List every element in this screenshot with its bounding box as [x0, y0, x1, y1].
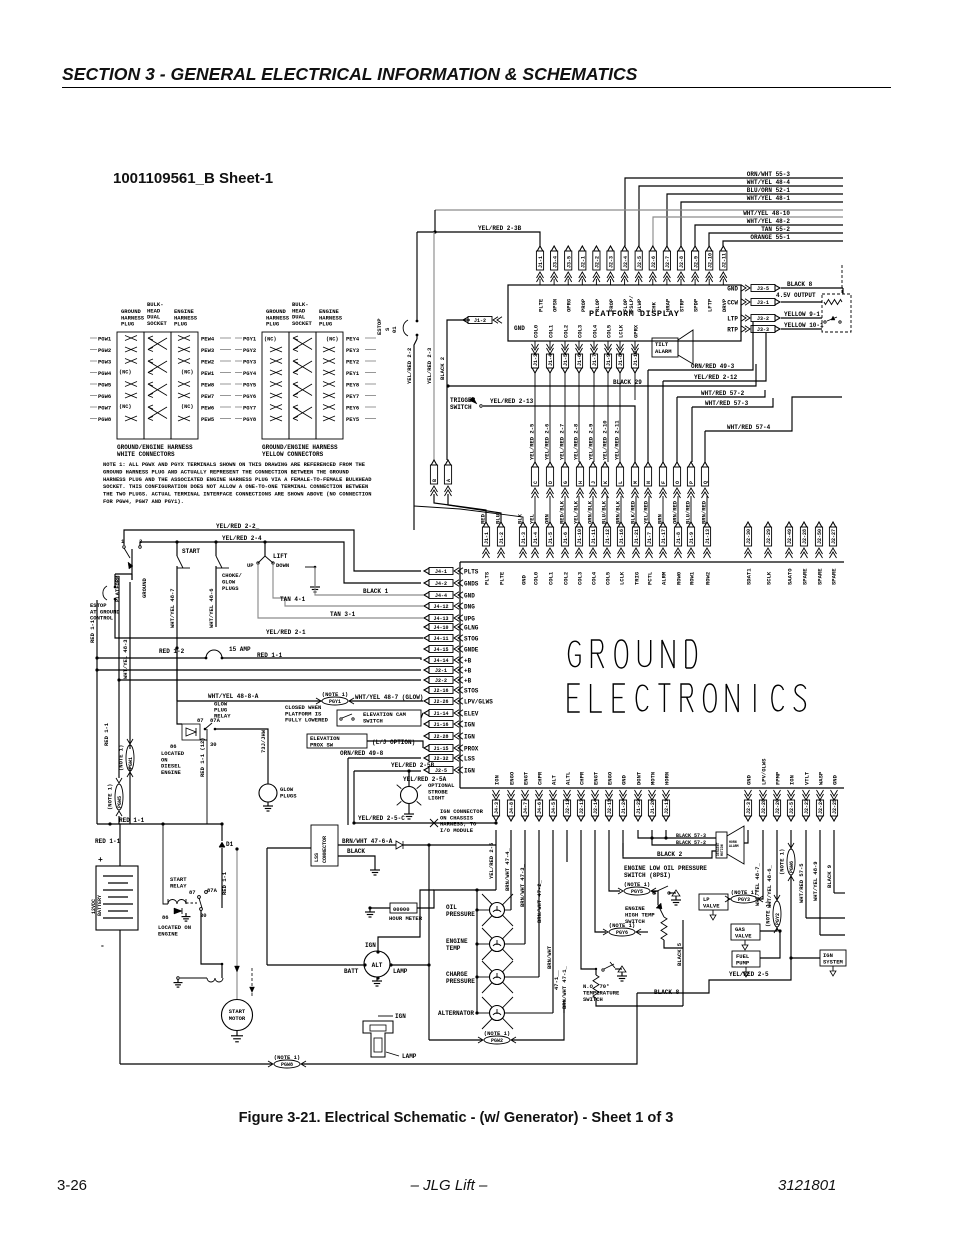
- wire RED 1-1 to +B: [222, 658, 421, 660]
- svg-text:J2-3: J2-3: [746, 802, 752, 814]
- svg-text:PGY2: PGY2: [775, 913, 781, 925]
- lss connector: [311, 825, 338, 866]
- svg-text:IGN: IGN: [365, 942, 376, 949]
- wire YEL/RED 2-12: [663, 333, 766, 381]
- wire gas valve: [776, 830, 778, 901]
- wire J1-3 GND feed: [414, 506, 523, 522]
- svg-text:YELLOW CONNECTORS: YELLOW CONNECTORS: [262, 451, 324, 458]
- svg-text:LSS: LSS: [464, 756, 475, 763]
- svg-text:GND: GND: [521, 574, 528, 585]
- wire bottom rail: [120, 1063, 272, 1065]
- ground module bottom bus: [460, 787, 844, 789]
- svg-text:TAN 55-2: TAN 55-2: [761, 226, 790, 233]
- svg-text:BRN/RED: BRN/RED: [701, 500, 708, 524]
- svg-text:WHT/YEL 48-2: WHT/YEL 48-2: [747, 218, 791, 225]
- connector L: [617, 462, 623, 467]
- svg-text:J1-16: J1-16: [433, 722, 448, 728]
- svg-text:(NC): (NC): [264, 337, 276, 343]
- svg-text:START: START: [229, 1008, 246, 1015]
- svg-text:WHT/YEL 48-1: WHT/YEL 48-1: [747, 195, 791, 202]
- svg-text:CONNECTOR: CONNECTOR: [322, 836, 328, 863]
- svg-text:PEW3: PEW3: [201, 347, 215, 354]
- svg-text:BLU/RED: BLU/RED: [685, 500, 692, 524]
- svg-text:PGW6: PGW6: [98, 393, 111, 400]
- svg-text:WHT/YEL 48-10: WHT/YEL 48-10: [743, 210, 790, 217]
- svg-text:J4-13: J4-13: [433, 616, 448, 622]
- svg-text:J1-7: J1-7: [592, 354, 598, 366]
- connector J2-11 (DRVP): [721, 246, 727, 251]
- svg-text:YEL/RED 2-13: YEL/RED 2-13: [490, 398, 534, 405]
- svg-text:ALARM: ALARM: [655, 348, 672, 355]
- svg-text:COL3: COL3: [577, 571, 584, 585]
- connector K: [602, 462, 608, 467]
- svg-text:PGW3: PGW3: [98, 359, 112, 366]
- svg-text:CHARGE: CHARGE: [446, 971, 468, 978]
- svg-text:ORN/RED 49-8: ORN/RED 49-8: [340, 750, 384, 757]
- wire ign rail: [790, 830, 792, 849]
- svg-text:PGW8: PGW8: [281, 1062, 293, 1068]
- descent/motion/horn alarm: [716, 832, 727, 858]
- battery 12VDC: [96, 866, 138, 930]
- svg-text:SYSTEM: SYSTEM: [823, 958, 844, 965]
- wire lp valve: [728, 898, 731, 900]
- svg-text:CCW: CCW: [727, 300, 738, 307]
- svg-text:4.5V OUTPUT: 4.5V OUTPUT: [776, 292, 816, 299]
- svg-text:ENGINE: ENGINE: [161, 769, 182, 776]
- gauge left rail: [476, 890, 478, 1013]
- svg-text:30: 30: [210, 741, 217, 748]
- svg-text:GND: GND: [746, 774, 753, 785]
- wire BLU/ORN 52-1: [667, 194, 843, 246]
- wire RED 1-1 left rail: [96, 600, 98, 824]
- svg-text:+B: +B: [464, 658, 472, 665]
- svg-text:YELLOW 10-1: YELLOW 10-1: [784, 322, 824, 329]
- hour meter: [390, 903, 417, 913]
- wire ORN/RED: [677, 496, 679, 522]
- svg-text:+B: +B: [464, 668, 472, 675]
- svg-text:SPARE: SPARE: [817, 568, 824, 585]
- svg-text:PLUG: PLUG: [266, 321, 280, 328]
- connector J1-5 (COL1): [547, 522, 553, 527]
- svg-text:J2-11: J2-11: [664, 799, 670, 814]
- wire ORN/WHT 55-3: [625, 178, 843, 246]
- svg-text:J3-2: J3-2: [757, 316, 769, 322]
- wire tilt box: [842, 288, 844, 294]
- svg-text:YEL/RED 2-3: YEL/RED 2-3: [426, 347, 433, 384]
- wire YEL/RED 2-8: [578, 372, 580, 462]
- connector J1-16 (LCLK): [618, 522, 624, 527]
- wire BRN: [662, 496, 664, 522]
- svg-text:73J/JHW: 73J/JHW: [260, 729, 267, 753]
- svg-text:J1-15: J1-15: [433, 746, 448, 752]
- svg-text:J1-26: J1-26: [650, 799, 656, 814]
- svg-text:ENGT: ENGT: [523, 771, 530, 785]
- header: [62, 64, 892, 85]
- svg-text:PROX: PROX: [464, 746, 479, 753]
- svg-text:YEL/RED 2-6: YEL/RED 2-6: [544, 424, 551, 460]
- svg-text:J2-5: J2-5: [435, 768, 447, 774]
- svg-text:J2-14: J2-14: [593, 799, 599, 814]
- svg-text:THE TWO PLUGS. ACTUAL TERMINAL: THE TWO PLUGS. ACTUAL TERMINAL INTERFACE…: [103, 492, 372, 498]
- svg-text:WHT/YEL 48-9: WHT/YEL 48-9: [812, 861, 819, 901]
- svg-text:SWITCH (8PSI): SWITCH (8PSI): [624, 872, 671, 879]
- connector J2-1 (+B): [429, 667, 453, 674]
- svg-text:PLTE: PLTE: [499, 571, 506, 585]
- wire B to J1-1: [434, 494, 486, 522]
- svg-text:PGY6: PGY6: [616, 930, 628, 936]
- svg-text:J4-2: J4-2: [435, 581, 447, 587]
- connector J1-8 (ROW0): [675, 522, 681, 527]
- ground module top bus: [460, 561, 844, 563]
- wire alt lamp: [391, 964, 429, 966]
- svg-text:J2-9: J2-9: [693, 256, 699, 268]
- svg-text:WHT/YEL 48-6: WHT/YEL 48-6: [208, 588, 215, 628]
- svg-text:PGY5: PGY5: [243, 382, 257, 389]
- connector D: [547, 462, 553, 467]
- svg-text:J2-1: J2-1: [435, 668, 447, 674]
- svg-text:ALT: ALT: [551, 774, 558, 785]
- svg-text:GROUND/ENGINE HARNESS: GROUND/ENGINE HARNESS: [117, 444, 193, 451]
- svg-text:PLTS: PLTS: [464, 569, 479, 576]
- svg-text:VTLT: VTLT: [804, 771, 811, 785]
- white connector table: [117, 332, 144, 439]
- wire YEL/RED 2-2: [124, 530, 421, 571]
- wire YEL/RED 2-10: [607, 372, 609, 462]
- wire +B J2-2: [119, 679, 421, 681]
- svg-text:SCLK: SCLK: [766, 571, 773, 585]
- svg-text:L: L: [618, 481, 624, 484]
- wire battery minus: [119, 930, 121, 1064]
- svg-text:J2-10: J2-10: [707, 253, 713, 268]
- svg-text:COL2: COL2: [563, 572, 570, 585]
- svg-text:SDAT1: SDAT1: [746, 568, 753, 585]
- connector J1-10 (COL3): [576, 522, 582, 527]
- svg-text:ROW1: ROW1: [689, 571, 696, 585]
- svg-text:PGW8: PGW8: [98, 416, 112, 423]
- svg-text:IGN: IGN: [464, 722, 475, 729]
- svg-text:YEL/RED 2-1: YEL/RED 2-1: [266, 629, 306, 636]
- gauge OIL PRESSURE: [482, 894, 513, 926]
- svg-text:HOUR METER: HOUR METER: [389, 915, 423, 922]
- wire relay to solenoid: [201, 910, 222, 978]
- svg-text:N: N: [646, 481, 652, 484]
- svg-text:LSS: LSS: [314, 853, 320, 862]
- wire YEL/RED 2-4: [140, 542, 421, 583]
- svg-text:J2-30: J2-30: [746, 529, 752, 544]
- svg-text:PGY7: PGY7: [243, 405, 256, 412]
- connector J4-1 (PLTS): [429, 568, 453, 575]
- svg-text:FSLP/: FSLP/: [628, 295, 635, 312]
- wire relay feeds: [177, 648, 182, 724]
- svg-text:J1-3: J1-3: [521, 532, 527, 544]
- svg-text:LFTP: LFTP: [707, 298, 714, 312]
- connector J1-2 (PLTE): [498, 522, 504, 527]
- wire BLU/BLK: [606, 496, 608, 522]
- svg-text:YEL/RED 2-2_: YEL/RED 2-2_: [216, 523, 260, 530]
- svg-text:PGW2: PGW2: [491, 1038, 503, 1044]
- svg-text:J2-28: J2-28: [761, 799, 767, 814]
- svg-text:STOS: STOS: [464, 688, 479, 695]
- low oil pressure switch symbol: [655, 886, 668, 892]
- ground symbol black 1: [314, 567, 316, 583]
- svg-text:COL4: COL4: [592, 324, 599, 338]
- svg-text:ORN/BLK: ORN/BLK: [587, 500, 594, 524]
- connector J2-30 (SDAT1): [745, 522, 751, 527]
- svg-text:BLACK 2: BLACK 2: [657, 851, 683, 858]
- wire WHT/YEL 48-2: [695, 225, 843, 246]
- wire TAN 55-2: [709, 233, 843, 246]
- svg-text:01: 01: [391, 326, 398, 333]
- svg-text:J2-50: J2-50: [817, 529, 823, 544]
- svg-text:PEY5: PEY5: [346, 416, 360, 423]
- svg-text:SWITCH: SWITCH: [450, 404, 472, 411]
- svg-text:ORN/WHT 55-3: ORN/WHT 55-3: [747, 171, 791, 178]
- svg-text:RLOP: RLOP: [594, 298, 601, 312]
- connector J2-1 (PROP): [580, 246, 586, 251]
- connector J1-7 (PCTL): [646, 522, 652, 527]
- svg-text:PLUG: PLUG: [174, 321, 188, 328]
- ign system: [820, 950, 846, 966]
- svg-text:PGW4: PGW4: [98, 370, 112, 377]
- wire YEL/RED 2-2 rail: [414, 339, 417, 530]
- svg-text:PEY1: PEY1: [346, 370, 360, 377]
- svg-text:O: O: [675, 481, 681, 484]
- svg-text:LIFT: LIFT: [273, 553, 288, 560]
- svg-text:WHT/YEL 48-7_: WHT/YEL 48-7_: [754, 862, 761, 906]
- wire ORANGE 55-1: [723, 241, 843, 246]
- svg-text:GROUND HARNESS PLUG AND ACTUAL: GROUND HARNESS PLUG AND ACTUALLY REPRESE…: [103, 469, 350, 475]
- svg-text:PGW1: PGW1: [98, 336, 112, 343]
- gas valve: [731, 924, 760, 940]
- svg-text:START: START: [182, 548, 200, 555]
- svg-text:GND: GND: [832, 774, 839, 785]
- svg-text:BATTERY: BATTERY: [97, 895, 103, 916]
- svg-text:PGW1: PGW1: [128, 757, 134, 769]
- connector J2-5 (IGN): [429, 767, 453, 774]
- connector J2-27 (SPARE): [830, 522, 836, 527]
- wire gnd down: [744, 830, 748, 843]
- svg-text:ALRM: ALRM: [661, 571, 668, 585]
- svg-text:NOTE 1: ALL PGWX AND PGYX TERM: NOTE 1: ALL PGWX AND PGYX TERMINALS SHOW…: [103, 462, 366, 468]
- svg-text:A: A: [446, 479, 452, 482]
- svg-text:GND: GND: [621, 774, 628, 785]
- footer: [57, 1177, 87, 1194]
- svg-text:HARNESS PLUG AND THE ASSOCIATE: HARNESS PLUG AND THE ASSOCIATED ENGINE H…: [103, 477, 372, 483]
- svg-text:J3-3: J3-3: [757, 327, 769, 333]
- svg-text:GLNG: GLNG: [464, 625, 479, 632]
- svg-text:J1-5: J1-5: [563, 354, 569, 366]
- svg-text:PEW1: PEW1: [201, 370, 215, 377]
- start relay coil: [168, 900, 177, 905]
- svg-text:J2-32: J2-32: [433, 756, 448, 762]
- svg-text:J2-6: J2-6: [651, 256, 657, 268]
- svg-text:J1-9: J1-9: [689, 532, 695, 544]
- svg-text:MOTION: MOTION: [720, 844, 724, 856]
- svg-text:J2-27: J2-27: [831, 529, 837, 544]
- svg-text:BRN/WHT 47-3_: BRN/WHT 47-3_: [519, 863, 526, 907]
- svg-text:(NOTE 1): (NOTE 1): [779, 849, 786, 875]
- svg-text:J2-2: J2-2: [435, 678, 447, 684]
- svg-text:J4-8: J4-8: [509, 802, 515, 814]
- wire YEL/RED 2-3 rail: [433, 232, 435, 460]
- svg-text:(NC): (NC): [326, 337, 338, 343]
- optional strobe light: [401, 787, 418, 804]
- svg-text:PGY3: PGY3: [738, 897, 750, 903]
- wire YEL/RED 2-7: [564, 372, 566, 462]
- svg-text:YEL/RED 2-3B: YEL/RED 2-3B: [478, 225, 522, 232]
- wire YEL/RED 2-5 rail: [495, 830, 497, 890]
- svg-text:SPARE: SPARE: [831, 568, 838, 585]
- svg-text:J3-5: J3-5: [566, 256, 572, 268]
- svg-text:STRP: STRP: [679, 298, 686, 312]
- svg-text:PEY6: PEY6: [346, 405, 359, 412]
- wire GND to BLACK 2 rail: [447, 320, 470, 340]
- svg-text:00000: 00000: [393, 906, 410, 913]
- svg-text:J2-5: J2-5: [637, 256, 643, 268]
- connector J4-14 (+B): [429, 657, 453, 664]
- high temp switch symbol: [651, 891, 658, 905]
- svg-text:+B: +B: [464, 678, 472, 685]
- strobe ground: [408, 804, 410, 810]
- connector J2-4 (FLOP): [622, 246, 628, 251]
- connector J4-10 (GLNG): [429, 624, 453, 631]
- connector J2-2 (+B): [429, 677, 453, 684]
- connector J2-10 (LFTP): [706, 246, 712, 251]
- svg-text:J2-28: J2-28: [433, 734, 448, 740]
- svg-text:FULLY LOWERED: FULLY LOWERED: [285, 717, 329, 724]
- wire ELEV: [421, 713, 423, 718]
- svg-text:J2-7: J2-7: [665, 256, 671, 268]
- wire BLK/RED: [635, 496, 637, 522]
- wire to bus gnd: [566, 830, 568, 862]
- connector J2-9 (SPDP): [692, 246, 698, 251]
- wire YEL/RED 2-11: [619, 372, 621, 462]
- wire YEL/BLK: [578, 496, 580, 522]
- connector B: [431, 460, 437, 465]
- svg-text:+: +: [98, 856, 103, 865]
- svg-text:J1-22: J1-22: [636, 799, 642, 814]
- start motor: [222, 1000, 253, 1031]
- svg-text:(NC): (NC): [119, 370, 131, 376]
- svg-text:PUMP: PUMP: [736, 959, 750, 966]
- svg-text:J4-5: J4-5: [551, 802, 557, 814]
- svg-text:J2-1: J2-1: [581, 256, 587, 268]
- svg-text:J2-15: J2-15: [607, 799, 613, 814]
- alternator ALT: [364, 951, 390, 977]
- svg-text:J3-1: J3-1: [757, 300, 769, 306]
- svg-text:TILT: TILT: [655, 341, 669, 348]
- svg-text:J2-23: J2-23: [804, 799, 810, 814]
- svg-text:BRN/WHT 47-4_: BRN/WHT 47-4_: [504, 847, 511, 891]
- wire vtlt WHT/RED 57-5: [805, 830, 807, 918]
- svg-text:J4-14: J4-14: [433, 658, 448, 664]
- svg-text:S: S: [384, 327, 391, 331]
- svg-text:YEL/RED 2-7: YEL/RED 2-7: [559, 424, 566, 460]
- wire TAN 3-1 (UPG): [258, 565, 423, 618]
- wire PROX: [367, 741, 423, 748]
- svg-text:ENGINE: ENGINE: [446, 938, 468, 945]
- svg-text:J2-12: J2-12: [565, 799, 571, 814]
- wire ORN/BLK: [592, 496, 594, 522]
- svg-text:SAATO: SAATO: [787, 568, 794, 585]
- temp switch symbol: [580, 830, 582, 952]
- svg-text:86: 86: [162, 914, 169, 921]
- svg-text:ENGO: ENGO: [509, 771, 516, 785]
- svg-text:BRN/WHT: BRN/WHT: [546, 945, 553, 969]
- svg-text:P: P: [689, 481, 695, 484]
- svg-text:PGW5: PGW5: [98, 382, 112, 389]
- connector J1-17 (ALRM): [660, 522, 666, 527]
- wire YEL/RED: [648, 496, 650, 522]
- svg-text:HRAP: HRAP: [664, 298, 671, 312]
- svg-text:WHT/YEL 48-7: WHT/YEL 48-7: [169, 588, 176, 628]
- svg-text:PEY2: PEY2: [346, 359, 359, 366]
- connector O: [674, 462, 680, 467]
- svg-text:ALTERNATOR: ALTERNATOR: [438, 1010, 474, 1017]
- svg-text:GLWP: GLWP: [636, 298, 643, 312]
- svg-text:GND: GND: [727, 286, 738, 293]
- wire WHT/YEL 48-10: [653, 217, 843, 246]
- svg-text:J2-3: J2-3: [609, 256, 615, 268]
- connector J4-15 (GNDE): [429, 646, 453, 653]
- svg-text:87: 87: [197, 717, 204, 724]
- wire WHT/YEL 48-1: [681, 202, 843, 246]
- svg-text:(NC): (NC): [119, 404, 131, 410]
- start relay contacts: [186, 902, 197, 904]
- svg-text:RED 1-1: RED 1-1: [95, 838, 121, 845]
- svg-text:J1-17: J1-17: [661, 529, 667, 544]
- tilt sensor (dashed): [822, 294, 851, 332]
- svg-text:86: 86: [170, 743, 177, 750]
- svg-text:ROW2: ROW2: [705, 572, 712, 585]
- yellow connector table: [262, 332, 289, 439]
- svg-text:J1-24: J1-24: [621, 799, 627, 814]
- svg-text:PGY3: PGY3: [243, 359, 257, 366]
- svg-text:J1-11: J1-11: [591, 529, 597, 544]
- svg-text:47-1__: 47-1__: [553, 969, 560, 990]
- svg-text:J1-3: J1-3: [533, 354, 539, 366]
- svg-text:J1-6: J1-6: [563, 532, 569, 544]
- svg-text:YELLOW 9-1: YELLOW 9-1: [784, 311, 820, 318]
- wire fuel pump: [760, 931, 780, 958]
- svg-text:J1-4: J1-4: [548, 354, 554, 366]
- svg-text:J1-1: J1-1: [538, 256, 544, 268]
- wire BRN/WHT 47-1: [552, 830, 554, 1013]
- connector J4-11 (STOG): [429, 635, 453, 642]
- svg-text:TRIG: TRIG: [634, 571, 641, 585]
- fuel pump: [732, 951, 760, 967]
- svg-text:HORN: HORN: [664, 772, 671, 785]
- svg-text:CHK: CHK: [650, 301, 657, 312]
- svg-text:BLACK 1: BLACK 1: [363, 588, 389, 595]
- svg-text:Q: Q: [703, 481, 709, 484]
- svg-text:YEL/RED 2-5: YEL/RED 2-5: [529, 423, 536, 460]
- svg-text:WHT/YEL 48-3: WHT/YEL 48-3: [122, 639, 129, 679]
- svg-text:YEL/RED 2-5: YEL/RED 2-5: [488, 842, 495, 879]
- connector J2-2 (RLOP): [594, 246, 600, 251]
- wire A to J1-2: [448, 494, 501, 522]
- svg-text:J4-12: J4-12: [433, 604, 448, 610]
- connector J2-32 (LSS): [429, 755, 453, 762]
- svg-text:YEL/RED 2-4: YEL/RED 2-4: [222, 535, 262, 542]
- svg-text:PGY8: PGY8: [243, 416, 257, 423]
- svg-text:COL1: COL1: [548, 324, 555, 338]
- svg-text:PEY3: PEY3: [346, 347, 360, 354]
- svg-text:PGW2: PGW2: [98, 347, 111, 354]
- svg-text:ORN/RED: ORN/RED: [672, 500, 679, 524]
- svg-text:ALT: ALT: [372, 962, 383, 969]
- svg-text:RED/BLK: RED/BLK: [559, 500, 566, 524]
